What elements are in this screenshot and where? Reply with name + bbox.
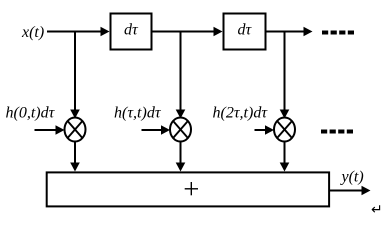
svg-text:h(τ,t)dτ: h(τ,t)dτ bbox=[114, 105, 162, 122]
svg-text:dτ: dτ bbox=[238, 22, 253, 39]
svg-text:y(t): y(t) bbox=[340, 169, 364, 186]
svg-text:x(t): x(t) bbox=[21, 24, 44, 41]
svg-text:h(0,t)dτ: h(0,t)dτ bbox=[6, 105, 56, 122]
svg-text:h(2τ,t)dτ: h(2τ,t)dτ bbox=[213, 105, 269, 122]
svg-text:↵: ↵ bbox=[371, 203, 383, 218]
svg-text:dτ: dτ bbox=[124, 22, 139, 39]
